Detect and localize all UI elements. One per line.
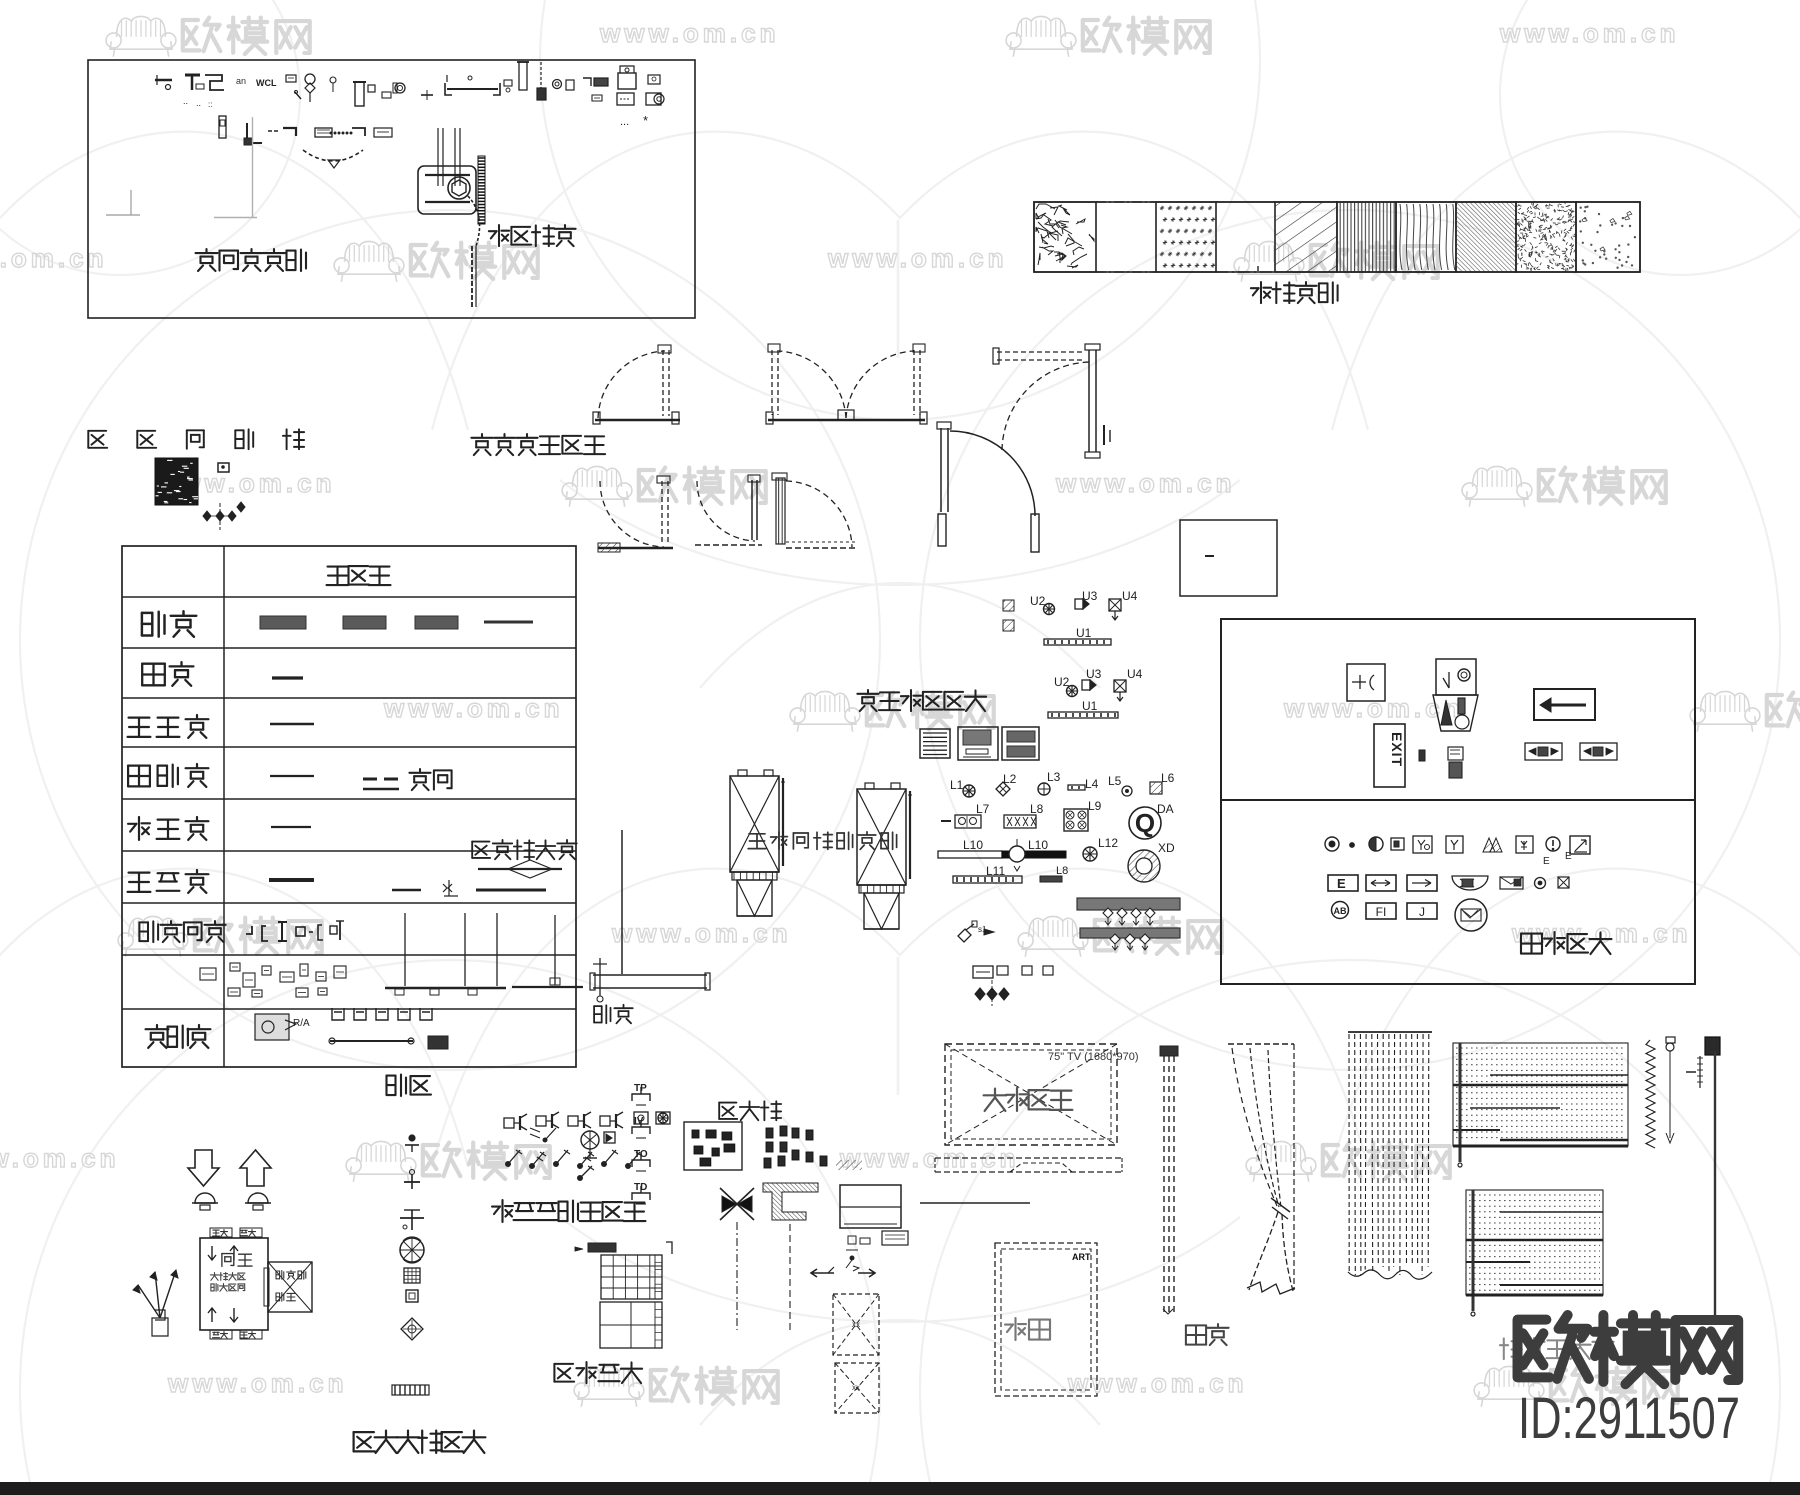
bottom black bar	[0, 1482, 1800, 1495]
svg-text:xx: xx	[852, 1320, 860, 1329]
svg-text:*: *	[643, 113, 648, 128]
svg-text:U4: U4	[1122, 589, 1138, 603]
svg-text:L9: L9	[1088, 799, 1102, 813]
label 卷帘百叶帘	[1503, 1338, 1505, 1359]
TV stand	[935, 1158, 1122, 1172]
svg-text:www.om.cn: www.om.cn	[1055, 468, 1236, 498]
svg-text:TO: TO	[634, 1149, 648, 1160]
svg-text:L1: L1	[950, 778, 964, 792]
svg-text:www.om.cn: www.om.cn	[611, 918, 792, 948]
svg-text:L8: L8	[1030, 802, 1044, 816]
svg-text:ID:2911507: ID:2911507	[1518, 1386, 1740, 1451]
svg-text:www.om.cn: www.om.cn	[167, 1368, 348, 1398]
door open D4	[937, 422, 1039, 552]
svg-text:EXIT: EXIT	[1389, 732, 1405, 767]
svg-text:L6: L6	[1161, 771, 1175, 785]
label 消防图例	[1521, 932, 1542, 934]
wall row samples	[260, 616, 533, 629]
row label 密度板	[128, 764, 150, 766]
row label 拼装板	[138, 817, 140, 840]
svg-text:..: ..	[196, 98, 201, 108]
svg-text:www.om.cn: www.om.cn	[599, 18, 780, 48]
row label 墙体	[142, 612, 152, 614]
svg-text:E: E	[1337, 876, 1346, 891]
tiled watermarks	[106, 16, 1679, 56]
svg-text:::: ::	[208, 100, 212, 109]
density board line + 硬包	[270, 776, 402, 789]
svg-text:U2: U2	[1054, 675, 1070, 689]
label 空调主机检修口	[749, 833, 765, 835]
door single D1	[593, 345, 680, 424]
label 水路末端图例	[354, 1431, 374, 1433]
row label 五金件	[156, 1025, 158, 1029]
aluminum panel 铝板	[590, 830, 710, 990]
svg-text:U2: U2	[1030, 594, 1046, 608]
svg-text:L12: L12	[1098, 836, 1118, 850]
dashed X box 1	[833, 1294, 879, 1355]
TV block 电视图块	[945, 1044, 1139, 1145]
svg-text:U1: U1	[1082, 699, 1098, 713]
door row2 B	[695, 475, 762, 545]
row label 钢结构件	[139, 921, 148, 923]
svg-text:E: E	[1565, 851, 1572, 862]
fresh air unit 反向	[133, 1228, 312, 1339]
svg-text:...: ...	[620, 116, 629, 128]
assembled board line	[271, 826, 311, 828]
pleated curtain	[1348, 1032, 1432, 1279]
svg-text:IV: IV	[634, 1116, 644, 1127]
svg-text:L4: L4	[1085, 777, 1099, 791]
svg-text:FI: FI	[1376, 905, 1387, 919]
svg-text:www.om.cn: www.om.cn	[0, 1143, 120, 1173]
table 动态块	[122, 546, 576, 1067]
svg-text:xx: xx	[852, 1383, 860, 1392]
label 灯具天花图例	[867, 690, 869, 693]
svg-text:U1: U1	[1076, 626, 1092, 640]
flow arrows	[188, 1150, 271, 1210]
row label 石材板	[129, 871, 150, 873]
corner block	[1686, 1037, 1720, 1088]
svg-text:L10: L10	[1028, 838, 1048, 852]
plywood line	[272, 676, 303, 679]
monitor + keyboard	[840, 1185, 908, 1271]
roller blind 2	[1466, 1190, 1603, 1316]
svg-text:L8: L8	[1056, 865, 1068, 877]
dashed X box 2	[835, 1363, 879, 1413]
svg-text:www.om.cn: www.om.cn	[0, 243, 108, 273]
svg-text:U3: U3	[1086, 667, 1102, 681]
hardware row 五金件	[255, 1008, 448, 1049]
svg-text:DA: DA	[1157, 802, 1174, 816]
water terminal symbols 水路末端图例	[392, 1135, 429, 1395]
tied curtain	[1228, 1044, 1295, 1294]
shelf line	[920, 1202, 1030, 1204]
AC access towers 空调主机检修口	[730, 770, 912, 929]
svg-text:www.om.cn: www.om.cn	[1499, 18, 1680, 48]
label 开关插座动态块	[501, 1200, 503, 1222]
big logo 欧模网	[1518, 1320, 1550, 1378]
long vertical line	[1714, 1052, 1716, 1315]
zigzag spring	[1646, 1040, 1655, 1148]
svg-text:www.om.cn: www.om.cn	[827, 243, 1008, 273]
svg-text:WCL: WCL	[256, 78, 277, 88]
svg-text:TD: TD	[634, 1182, 647, 1193]
gypsum line	[270, 723, 314, 726]
svg-text:R/A: R/A	[293, 1018, 310, 1029]
roller blind 1	[1453, 1043, 1628, 1167]
svg-text:ART: ART	[1072, 1252, 1091, 1262]
switch socket blocks 开关插座动态块	[504, 1083, 670, 1204]
svg-text:TP: TP	[634, 1083, 647, 1094]
svg-text:L5: L5	[1108, 774, 1122, 788]
label 填充样式	[1260, 282, 1262, 303]
label 卫生间五金	[205, 249, 207, 253]
row label 石膏板	[129, 716, 150, 718]
hardware bits row8	[200, 913, 607, 1002]
svg-text:AB: AB	[1334, 906, 1347, 916]
svg-text:an: an	[236, 76, 246, 86]
door row2 C	[772, 473, 856, 548]
pull cord	[1666, 1037, 1675, 1143]
fill pattern strip 填充样式	[1034, 201, 1640, 272]
svg-text:Q: Q	[1135, 808, 1155, 838]
door row2 A	[598, 476, 673, 552]
stone board row	[269, 860, 562, 896]
label 平面门动态块	[481, 434, 483, 437]
svg-text:E: E	[1543, 856, 1550, 867]
sheet layout grid 图纸排版	[575, 1242, 672, 1348]
label 绘图线型表	[88, 430, 106, 432]
table header 动态块	[328, 565, 348, 567]
steel parts row	[246, 921, 344, 941]
label 防火卷帘	[498, 225, 500, 246]
bowtie symbol	[720, 1188, 754, 1330]
row label 夹板	[142, 663, 165, 665]
label 玻璃本饰面	[472, 841, 489, 843]
label 吊轨	[387, 1074, 396, 1076]
fire legend box 消防图例	[1221, 619, 1695, 984]
stepped hatch block	[763, 1183, 818, 1333]
empty block frame	[1180, 520, 1277, 596]
small arrows	[811, 1267, 875, 1277]
svg-text:J: J	[1419, 905, 1425, 919]
svg-text:L3: L3	[1047, 770, 1061, 784]
svg-text:75" TV (1680*970): 75" TV (1680*970)	[1048, 1051, 1139, 1063]
door double D2	[766, 344, 927, 424]
hanging picture 挂画	[995, 1243, 1097, 1396]
svg-text:XD: XD	[1158, 841, 1175, 855]
svg-text:L10: L10	[963, 838, 983, 852]
svg-text:..: ..	[183, 96, 188, 106]
svg-text:www.om.cn: www.om.cn	[1067, 1368, 1248, 1398]
bathroom hardware box 卫生间五金	[88, 60, 695, 318]
door frame D3	[993, 344, 1110, 458]
svg-text:L7: L7	[976, 802, 990, 816]
dense block	[155, 458, 245, 530]
legend table 图例表	[684, 1122, 862, 1170]
curtain strip 窗帘	[1160, 1046, 1178, 1314]
svg-text:U4: U4	[1127, 667, 1143, 681]
